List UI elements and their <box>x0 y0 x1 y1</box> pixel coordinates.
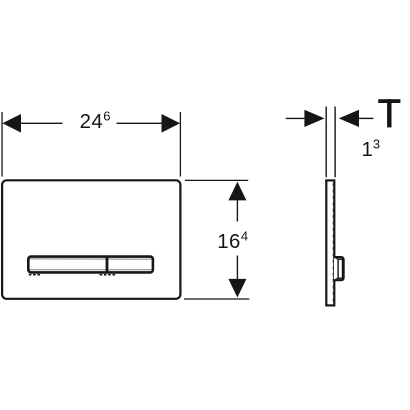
thickness extension line right <box>334 107 336 178</box>
height dim line upper segment <box>236 200 238 222</box>
button inner bottom shade line <box>30 269 152 271</box>
thickness dim arrow pointing left <box>339 110 359 127</box>
button bottom ticks right <box>100 274 116 276</box>
side view plate profile <box>326 180 334 305</box>
side view hidden edge dashed line <box>332 183 334 303</box>
thickness dim arrow pointing right <box>304 110 324 127</box>
button divider <box>106 256 109 273</box>
wall level T symbol bar <box>378 99 400 103</box>
height dim arrow up <box>228 182 246 201</box>
width dim arrow right <box>162 114 181 133</box>
height dim line lower segment <box>236 256 238 280</box>
svg-text:164: 164 <box>217 228 248 253</box>
side view button bevel bottom <box>335 278 338 280</box>
button bottom ticks left <box>29 274 41 276</box>
width dim extension line left <box>1 112 3 177</box>
thickness extension line left <box>325 107 327 178</box>
thickness dim line right <box>359 117 374 119</box>
height dim extension line bottom <box>184 298 249 300</box>
width dim arrow left <box>2 114 21 133</box>
side view button bump outline <box>334 257 344 280</box>
side view button bevel top <box>335 258 338 260</box>
height dim extension line top <box>185 179 248 181</box>
width dim extension line right <box>179 112 181 177</box>
button outline <box>28 257 153 273</box>
width dim line left segment <box>20 122 63 124</box>
width dim line right segment <box>117 122 163 124</box>
side view button face <box>338 259 342 278</box>
svg-text:246: 246 <box>80 108 111 133</box>
thickness dim line left <box>286 117 305 119</box>
wall level T symbol stem <box>387 99 391 127</box>
front view plate outline <box>2 180 180 298</box>
height dim arrow down <box>228 279 246 298</box>
svg-text:13: 13 <box>362 137 381 162</box>
button inner top shade line <box>30 258 152 260</box>
